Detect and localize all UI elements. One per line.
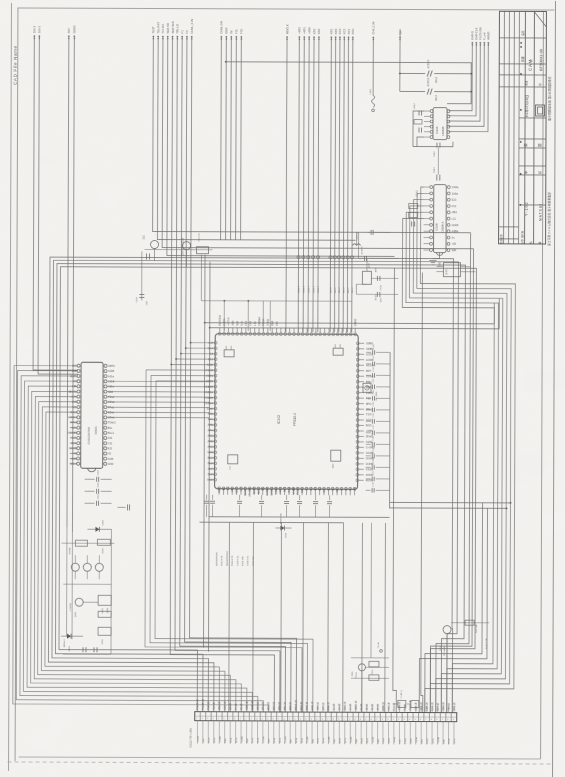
wire EVR-D to IC106 — [449, 43, 473, 111]
CN101 pin 46 lower lead — [442, 722, 444, 745]
wire GND2 — [72, 36, 74, 532]
wire cluster h652 — [63, 653, 111, 655]
IC102 right pin 15 — [356, 419, 359, 422]
CN101 divider 21 — [308, 712, 310, 721]
junction — [470, 73, 472, 75]
wire B-RY in1 — [436, 266, 443, 268]
CN101 pin 29 upper lead — [349, 705, 351, 712]
svg-text:A4: A4 — [353, 487, 357, 491]
wire IC102 Lpin3 join — [181, 353, 210, 355]
title block outer box — [499, 11, 547, 244]
svg-text:L1B1.4: L1B1.4 — [303, 285, 305, 293]
capacitor AC-R413 — [358, 257, 363, 259]
svg-text:4: 4 — [409, 719, 410, 721]
svg-text:SEL-1B: SEL-1B — [219, 701, 221, 709]
svg-text:1B1.3: 1B1.3 — [343, 287, 345, 294]
svg-text:6: 6 — [322, 719, 323, 721]
CN101 pin 12 upper lead — [257, 705, 259, 712]
svg-text:3: 3 — [256, 718, 257, 720]
IC102 right pin 16 — [356, 424, 359, 427]
terminal TEST — [153, 36, 155, 38]
wire bus drop 3 — [262, 301, 264, 331]
CN101 pin 42 lower lead — [420, 722, 422, 745]
svg-text:TL18B: TL18B — [241, 736, 243, 743]
CN101 pin 13 upper lead — [262, 705, 264, 712]
capacitor CB4 — [261, 495, 263, 500]
svg-text:TL+2b: TL+2b — [378, 641, 380, 648]
CN101 divider 25 — [330, 712, 332, 721]
test point KR3 — [312, 256, 315, 259]
wire ID101 pin 2 to CN — [16, 371, 264, 712]
wire ID101 pin 19 stub — [70, 457, 77, 459]
CN101 divider 33 — [374, 712, 376, 721]
bus wire long H1 — [48, 257, 454, 713]
svg-text:C17B: C17B — [136, 297, 138, 303]
svg-text:VD0-1B: VD0-1B — [318, 702, 320, 711]
svg-text:L1B1.5: L1B1.5 — [298, 285, 300, 293]
svg-text:A2-1B: A2-1B — [366, 703, 369, 710]
CN101 pin 23 lower lead — [316, 721, 318, 744]
bus wire long H2 — [52, 260, 459, 712]
svg-text:XT_PAL: XT_PAL — [248, 486, 252, 496]
terminal KR1 — [331, 36, 333, 38]
svg-text:ID101: ID101 — [94, 426, 98, 434]
IC10B right pin 11 — [447, 249, 450, 252]
svg-text:4: 4 — [262, 718, 263, 720]
wire CHNL_3.3V down — [189, 37, 299, 712]
svg-text:SL3a: SL3a — [323, 737, 325, 743]
svg-text:PL06: PL06 — [231, 737, 233, 743]
svg-text:F2: F2 — [185, 30, 189, 34]
svg-text:Y - 1 0 2: Y - 1 0 2 — [525, 202, 529, 216]
terminal KC3 — [339, 36, 341, 38]
IC10B right pin 4 — [447, 205, 450, 208]
terminal KR0 — [335, 36, 337, 38]
CN101 divider 24 — [325, 712, 327, 721]
svg-text:3: 3 — [207, 718, 208, 720]
svg-text:A3BH: A3BH — [452, 229, 459, 233]
test point KC1 — [346, 256, 349, 259]
IC102 top pin 29 — [341, 333, 344, 336]
svg-text:GND: GND — [217, 487, 221, 493]
wire GND — [225, 37, 228, 240]
title block column line — [524, 11, 527, 243]
CN101 pin 8 lower lead — [235, 721, 237, 744]
capacitor C015 — [93, 647, 95, 652]
ID101 right pin 3 — [104, 375, 107, 378]
CN101 pin 30 lower lead — [355, 721, 357, 744]
IC102 bottom pin 9 — [253, 487, 256, 490]
wire ID101 pin 17 stub — [70, 447, 77, 449]
resistor box Q515 — [362, 271, 371, 284]
IC102 bottom pin 26 — [327, 487, 330, 490]
wire down to CN x230 — [228, 522, 231, 711]
wire cluster left v67 ext — [66, 527, 68, 636]
IC102 left pin 12 — [214, 402, 217, 405]
wire ID101 pin 16 stub — [70, 442, 77, 444]
svg-text:CH1-1B: CH1-1B — [301, 701, 303, 710]
CN101 pin 22 upper lead — [311, 705, 313, 712]
terminal AGND — [488, 42, 490, 44]
wire B-RY out1 — [460, 266, 470, 268]
wire ID101 right pin 5 — [107, 385, 209, 387]
svg-text:GND2-1B: GND2-1B — [410, 700, 412, 710]
CN101 pin 10 upper lead — [246, 705, 248, 712]
svg-text:P_o-1B: P_o-1B — [394, 702, 396, 710]
drawing frame right vertical — [541, 11, 544, 759]
svg-text:CHB0A: CHB0A — [265, 487, 269, 496]
ID101 right pin 17 — [104, 447, 107, 450]
svg-text:5BbL: 5BbL — [366, 407, 373, 411]
capacitor CL3 — [85, 502, 95, 504]
IC102 right pin 1 — [356, 342, 359, 345]
svg-text:6: 6 — [371, 719, 372, 721]
IC102 left pin 18 — [214, 435, 217, 438]
ID101 right pin 13 — [104, 426, 107, 429]
svg-text:TL10B: TL10B — [307, 736, 309, 743]
svg-text:BL2: BL2 — [208, 461, 213, 465]
wire PS01 h657 — [351, 657, 389, 659]
IC102 right pin 8 — [356, 380, 359, 383]
wire D101 collector — [451, 622, 489, 624]
IC102 right pin 18 — [356, 435, 359, 438]
svg-text:X1-1B: X1-1B — [350, 703, 352, 710]
svg-text:R113 4.7K: R113 4.7K — [222, 555, 224, 566]
IC106 left pin 4 — [430, 125, 433, 128]
svg-text:6: 6 — [273, 718, 274, 720]
CN101 divider 7 — [232, 712, 234, 721]
capacitor CR13 — [366, 489, 371, 491]
wire IC10B bottom GND — [432, 253, 439, 259]
ID101 right pin 4 — [104, 380, 107, 383]
title block row line 2 — [499, 63, 546, 65]
wire ID101 pin 18 stub — [70, 452, 77, 454]
IC102 left pin 6 — [214, 369, 217, 372]
svg-text:KC0: KC0 — [351, 28, 355, 34]
svg-text:1: 1 — [442, 719, 443, 721]
IC102 left pin 11 — [214, 396, 217, 399]
bus wire long H3 — [55, 264, 465, 713]
terminal 5V — [399, 37, 401, 39]
svg-text:1: 1 — [344, 719, 345, 721]
svg-text:3: 3 — [453, 719, 454, 721]
CN101 divider 31 — [363, 712, 365, 721]
IC102 left pin 19 — [214, 440, 217, 443]
wire KR2 — [318, 37, 319, 332]
wire bus drop 1 — [223, 301, 225, 331]
svg-text:DB4: DB4 — [270, 320, 274, 326]
svg-text:IC106: IC106 — [435, 126, 439, 133]
svg-text:CHNL_3.3V: CHNL_3.3V — [190, 19, 194, 34]
IC102 top pin 25 — [323, 333, 326, 336]
wire ID101 right pin 8 — [107, 401, 209, 403]
svg-text:H1G-1B: H1G-1B — [432, 702, 434, 711]
svg-text:SL1a: SL1a — [367, 737, 369, 743]
svg-text:M A T S U I: M A T S U I — [539, 204, 543, 221]
CN101 divider 16 — [281, 712, 283, 721]
terminal TL+2b — [380, 650, 383, 653]
wire ID101 right pin 4 — [107, 380, 209, 382]
title block tick 7 — [520, 204, 522, 206]
svg-text:VSS: VSS — [207, 478, 213, 482]
ring wire top outer drop — [493, 303, 495, 324]
svg-text:品名: 品名 — [521, 30, 525, 36]
IC102 top pin 7 — [245, 332, 248, 335]
capacitor CR10 — [366, 455, 371, 457]
CN101 pin 4 upper lead — [213, 705, 215, 712]
title block row line b3 — [519, 147, 546, 149]
svg-text:TL12B: TL12B — [372, 736, 374, 743]
svg-text:B4T-1B: B4T-1B — [323, 702, 325, 710]
svg-text:1B1.4: 1B1.4 — [339, 287, 341, 294]
capacitor C105 — [145, 253, 147, 259]
title block row line left2 — [499, 238, 519, 240]
CN101 pin 44 lower lead — [431, 722, 433, 745]
CN101 pin 15 upper lead — [273, 705, 275, 712]
svg-text:TLY-1B: TLY-1B — [214, 702, 216, 710]
svg-text:L'TN/'SB: L'TN/'SB — [70, 603, 72, 612]
wire 5V — [230, 37, 233, 240]
wire right bus bottom pair — [390, 501, 511, 503]
CN101 pin 48 upper lead — [453, 706, 455, 713]
IC10B left pin 2 — [430, 192, 433, 195]
IC102 top pin 32 — [354, 333, 357, 336]
CN101 divider 17 — [287, 712, 289, 721]
CN101 pin 29 lower lead — [349, 721, 351, 744]
svg-text:KB0-1B: KB0-1B — [279, 702, 281, 710]
sheet fold dashed bottom line — [8, 762, 552, 764]
svg-text:R110B: R110B — [69, 547, 71, 554]
capacitor C+D2 — [411, 700, 419, 707]
terminal TBL-LD — [177, 36, 179, 38]
IC102 bottom pin 21 — [305, 487, 308, 490]
svg-text:7: 7 — [327, 719, 328, 721]
svg-text:3D1: 3D1 — [143, 234, 146, 239]
wire KR1 — [330, 37, 331, 332]
svg-text:DT114EK: DT114EK — [444, 646, 446, 656]
CN101 pin 21 upper lead — [306, 705, 308, 712]
capacitor CB7 — [315, 495, 317, 500]
svg-text:D101: D101 — [440, 645, 442, 651]
ID101 right pin 2 — [104, 370, 107, 373]
wire KR0 — [335, 37, 336, 332]
svg-text:X2: X2 — [331, 487, 335, 491]
resistor RL2 — [369, 661, 379, 667]
CN101 divider 2 — [205, 712, 207, 721]
CN101 pin 33 lower lead — [371, 721, 373, 744]
resistor R301 box — [197, 247, 209, 254]
svg-text:PL02: PL02 — [427, 738, 429, 744]
IC102 left pin 9 — [214, 385, 217, 388]
svg-text:KR0-1B: KR0-1B — [258, 701, 260, 710]
CN101 pin 22 lower lead — [311, 721, 313, 744]
IC IC106 DIP body — [433, 108, 447, 140]
terminal TLY-D4 — [162, 36, 164, 38]
svg-text:A3-1B: A3-1B — [371, 703, 374, 710]
wire CHNL-ON — [220, 37, 223, 240]
svg-text:A3: A3 — [348, 487, 352, 491]
svg-text:TBL-LD: TBL-LD — [175, 24, 179, 34]
CN101 pin 20 upper lead — [300, 705, 302, 712]
wire down to CN x254 — [252, 522, 255, 711]
CN101 pin 48 lower lead — [453, 722, 455, 745]
drawing frame left vertical — [15, 7, 18, 760]
wire IC106 to IC10B — [437, 148, 439, 175]
diode D010 — [275, 527, 280, 529]
bus wire R5 — [404, 212, 499, 713]
terminal 100-2 — [39, 35, 41, 37]
wire TLY-D4 to cluster — [162, 37, 474, 249]
CN101 divider 46 — [445, 713, 447, 722]
svg-text:PL02: PL02 — [318, 737, 320, 743]
IC102 right pin 17 — [356, 430, 359, 433]
terminal FLCD-ON — [480, 42, 482, 44]
wire ID101 right pin 9 — [107, 406, 209, 408]
svg-text:TG3: TG3 — [366, 413, 372, 417]
wire ID101 pin 1 to CN — [13, 365, 270, 711]
test point +KB2 — [297, 256, 300, 259]
svg-text:縮尺無: 縮尺無 — [520, 230, 524, 238]
svg-text:1: 1 — [295, 719, 296, 721]
ID101 left pin 19 — [77, 457, 80, 460]
capacitor CB8 — [329, 495, 331, 500]
title block revision column line 2 — [508, 11, 511, 243]
ID101 left pin 16 — [77, 442, 80, 445]
IC102 bottom pin 30 — [345, 487, 348, 490]
CN101 pin 35 upper lead — [382, 705, 384, 712]
wire ID101 pin 5 to CN — [27, 386, 248, 712]
junction ring1 — [204, 322, 206, 324]
terminal +KB2 — [299, 36, 301, 38]
wire B-RY out2 — [460, 271, 475, 273]
CN101 pin 27 upper lead — [338, 705, 340, 712]
CN101 pin 45 lower lead — [437, 722, 439, 745]
svg-text:LDD-1B: LDD-1B — [427, 702, 429, 711]
svg-text:D1: D1 — [210, 352, 214, 356]
svg-text:F1: F1 — [180, 30, 184, 34]
svg-text:IC10B: IC10B — [435, 223, 439, 230]
IC102 right pin 2 — [356, 347, 359, 350]
IC102 right pin 13 — [356, 408, 359, 411]
capacitor CR11 — [366, 466, 371, 468]
CN101 pin 47 lower lead — [447, 722, 449, 745]
CN101 divider 20 — [303, 712, 305, 721]
terminal GND — [226, 36, 228, 38]
wire SER-SO to cluster — [167, 37, 395, 257]
CN101 pin 31 upper lead — [360, 705, 362, 712]
IC102 bottom pin 29 — [340, 487, 343, 490]
IC102 bottom pin 15 — [279, 487, 282, 490]
svg-text:KB1-1B: KB1-1B — [285, 702, 287, 710]
IC102 right pin 6 — [356, 369, 359, 372]
bus wire long H4 — [59, 267, 477, 713]
ID101 right pin 11 — [104, 416, 107, 419]
IC102 internal block BL — [228, 455, 238, 464]
IC102 bottom pin 7 — [244, 487, 247, 490]
IC102 bottom pin 31 — [349, 487, 352, 490]
title block revision column line 3 — [513, 11, 516, 243]
test point KC2 — [342, 256, 345, 259]
CN101 divider 41 — [418, 713, 420, 722]
svg-text:2: 2 — [349, 719, 350, 721]
svg-text:FPI110-4: FPI110-4 — [293, 413, 297, 426]
capacitor C412 — [418, 111, 420, 116]
svg-text:K013: K013 — [69, 645, 71, 651]
svg-text:8: 8 — [431, 719, 432, 721]
wire down to CN x344 — [342, 523, 345, 712]
CN101 pin 40 lower lead — [409, 721, 411, 744]
svg-text:RESBT: RESBT — [243, 487, 247, 496]
wire KC1 — [347, 37, 348, 332]
svg-text:電子回路基本紙 第2水準図面様式: 電子回路基本紙 第2水準図面様式 — [547, 76, 552, 121]
wire 5VT — [67, 36, 69, 527]
svg-text:認: 認 — [537, 171, 542, 174]
ID101 left pin 18 — [77, 452, 80, 455]
svg-text:BL1: BL1 — [208, 456, 213, 460]
title block tick 4 — [520, 109, 522, 111]
wire TEL-RST to cluster — [157, 37, 356, 241]
IC10B right pin 8 — [447, 230, 450, 233]
CN101 divider 12 — [259, 712, 261, 721]
svg-text:L7T: L7T — [239, 486, 243, 491]
svg-text:CHB03: CHB03 — [270, 486, 274, 495]
capacitor CB5 — [286, 495, 288, 500]
CN101 pin 17 lower lead — [284, 721, 286, 744]
CN101 divider 8 — [237, 712, 239, 721]
IC102 top pin 22 — [310, 333, 313, 336]
CN101 pin 16 lower lead — [278, 721, 280, 744]
svg-text:AGC-1B: AGC-1B — [311, 701, 314, 710]
svg-text:F13: F13 — [452, 204, 457, 208]
svg-text:B'1_0613: B'1_0613 — [376, 391, 378, 401]
svg-text:MDCLK: MDCLK — [285, 24, 289, 34]
wire Q302 down — [185, 250, 187, 267]
IC106 right pin 6 — [447, 136, 450, 139]
IC102 top pin 12 — [266, 333, 269, 336]
svg-text:CH4_3.3V: CH4_3.3V — [371, 21, 375, 34]
svg-text:SL7a: SL7a — [345, 737, 347, 743]
svg-text:2: 2 — [398, 719, 399, 721]
title block tick 6 — [520, 173, 522, 175]
svg-text:TEST: TEST — [235, 486, 239, 493]
CN101 pin 46 upper lead — [442, 706, 444, 713]
svg-text:SER-SCK: SER-SCK — [171, 21, 175, 34]
CN101 pin 15 lower lead — [273, 721, 275, 744]
CN101 pin 17 upper lead — [284, 705, 286, 712]
svg-text:X1: X1 — [326, 487, 330, 491]
svg-text:B4T: B4T — [283, 487, 287, 492]
CN101 pin 11 upper lead — [251, 705, 253, 712]
svg-text:VD03: VD03 — [278, 486, 282, 493]
CN101 divider 39 — [407, 712, 409, 721]
thermistor TH1 box — [363, 383, 371, 392]
bus wire mid new 3 — [155, 381, 314, 712]
svg-text:7: 7 — [376, 719, 377, 721]
IC106 right pin 3 — [447, 120, 450, 123]
ID101 left pin 1 — [77, 364, 80, 367]
svg-text:6: 6 — [224, 718, 225, 720]
svg-text:BT50841-00: BT50841-00 — [538, 48, 543, 71]
IC102 right pin 20 — [356, 446, 359, 449]
CN101 pin 38 lower lead — [398, 721, 400, 744]
svg-text:F1-1B: F1-1B — [236, 703, 238, 710]
IC102 bottom pin 18 — [292, 487, 295, 490]
svg-text:尺: 尺 — [529, 59, 533, 62]
svg-text:7: 7 — [278, 718, 279, 720]
CN101 divider 23 — [319, 712, 321, 721]
svg-text:LD-1B: LD-1B — [230, 703, 232, 710]
transistor Q301 — [151, 240, 159, 248]
